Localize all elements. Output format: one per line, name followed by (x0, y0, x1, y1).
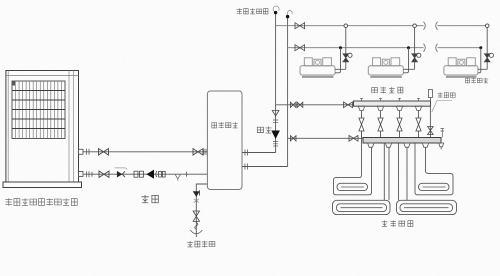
heat pump cabinet right rails (69, 71, 74, 183)
flange ticks at tank, top pipe (204, 149, 206, 155)
return pipe unit-to-tank (bottom) (84, 173, 208, 175)
gate valve, top pipe left (99, 149, 109, 155)
label: insulated tank (212, 122, 238, 128)
label: fan coil unit (465, 78, 488, 83)
gate valve, top pipe right (193, 149, 203, 155)
air vent left (273, 6, 279, 11)
fan coil unit 1 body (300, 66, 335, 75)
gate valve, bottom pipe left (99, 171, 109, 177)
check valve on bottom pipe (117, 171, 122, 178)
motorized valve unit 3 (484, 54, 490, 62)
supply manifold outlets (358, 106, 421, 110)
label: pump (riser) (257, 126, 271, 133)
heat pump coil vertical fins (16, 81, 62, 139)
gate valve on return header (295, 45, 305, 51)
motorized valve unit 2 (412, 54, 418, 62)
insulated tank (207, 91, 242, 190)
check valve on make-up drop (193, 191, 200, 197)
connecting pipe between manifolds (429, 106, 431, 137)
heat pump coil frame (12, 81, 65, 139)
drain outlet below return manifold right end (439, 143, 444, 150)
drain/strainer below bottom pipe (175, 174, 181, 180)
label: connecting pipe (438, 92, 456, 98)
pump (horizontal, solid triangle) (146, 170, 154, 179)
pump on left riser (solid triangle down) (271, 131, 280, 140)
check valve on left riser (272, 111, 279, 117)
heat pump coil corner block (12, 81, 15, 86)
floor loop feed 1 (upper-left coil) (334, 131, 372, 195)
heat pump unit outer cabinet (6, 71, 79, 183)
valve on manifold return feed (290, 136, 296, 141)
flange ticks at unit, top pipe (87, 149, 90, 155)
label: heat-pump unit (pseudo CJK) (5, 198, 77, 206)
floor loop feeds (lower-left coil) (384, 143, 389, 200)
label: automatic air vent (237, 8, 268, 14)
balance valve drop 1 (361, 111, 363, 138)
unit 3 riser connection from supply (485, 24, 489, 28)
fan coil unit 2 top boxes (373, 58, 381, 66)
lower-right coil outer (397, 200, 457, 214)
manifold supply feed line (276, 104, 354, 106)
upper-right coil inner capsule (419, 183, 450, 190)
label: pump (bottom pipe) (141, 195, 158, 203)
floor loop feed (upper-right coil) (415, 143, 453, 195)
heat pump outlet stub upper (79, 149, 84, 154)
balance valve drop 3 (399, 111, 401, 138)
label: manifold (372, 87, 403, 93)
heat pump coil horizontal tubes (12, 91, 65, 129)
unit 3 connection from return (479, 46, 482, 49)
valve on make-up drop (193, 211, 199, 221)
fan-coil supply header (276, 25, 488, 27)
lower-left coil inner capsule (337, 204, 387, 212)
manifold return feed line (288, 137, 363, 139)
annotation leader above check valve (115, 168, 128, 170)
fan coil unit 3 body (444, 66, 478, 75)
gate valve on supply header (295, 23, 305, 29)
tiny marks below check valve (194, 199, 199, 203)
fittings below riser pump (273, 142, 278, 147)
manifold air vent (right end) (428, 90, 432, 98)
flange ticks at unit, bottom pipe (87, 171, 93, 177)
double valve on manifold supply feed (290, 102, 296, 107)
tank-to-riser pipe upper right (242, 152, 276, 154)
label: floor heating coil (382, 220, 413, 226)
fan coil unit 2 body (368, 66, 403, 75)
valve before return manifold (349, 136, 358, 142)
heat pump cabinet left rail (7, 71, 9, 183)
lower-left coil outer (333, 200, 391, 214)
pump outlet fittings (156, 171, 157, 177)
funnel symbol at make-up end (190, 230, 202, 234)
return manifold outlets below (368, 143, 429, 147)
fan coil unit 3 top boxes (448, 58, 456, 66)
heat pump cabinet top rail (6, 75, 79, 77)
fan coil unit 1 top boxes (304, 58, 312, 66)
air vent right (288, 10, 293, 16)
flange ticks on left riser (273, 120, 278, 122)
unit 2 riser connection from supply (413, 24, 417, 28)
heat pump outlet stub lower (79, 172, 84, 177)
pipe break marks, supply header (424, 22, 438, 30)
drain fitting at return manifold right (441, 129, 445, 138)
unit 2 connection from return (407, 46, 410, 49)
balance valve drop 4 (418, 111, 420, 138)
return manifold bar (363, 138, 441, 144)
valve on connecting pipe (428, 127, 434, 135)
fan-coil return header (288, 47, 481, 49)
flange tick mid pipe (186, 172, 188, 177)
unit 1 riser connection from supply (344, 24, 348, 28)
label: make-up water (187, 241, 215, 247)
right riser (287, 17, 289, 167)
tank-to-riser pipe lower right (242, 166, 288, 168)
unit 1 connection from return (339, 46, 342, 49)
balance valve drop 2 (380, 111, 382, 138)
squiggle on make-up drop (195, 223, 198, 230)
supply manifold bar (354, 101, 431, 106)
union fitting before pump (134, 171, 138, 177)
valve before supply manifold (344, 102, 353, 108)
vent ticks on supply manifold (360, 98, 420, 101)
motorized valve unit 1 (343, 54, 349, 62)
pipe break marks, return header (424, 44, 438, 52)
heat pump base plinth (3, 182, 82, 188)
lower-right coil inner capsule (400, 204, 453, 212)
floor loop feeds (lower-right coil) (399, 143, 408, 200)
left riser (275, 13, 277, 153)
make-up water stub from tank (196, 184, 207, 237)
supply pipe unit-to-tank (top) (84, 151, 208, 153)
upper-left coil inner capsule (337, 183, 368, 190)
